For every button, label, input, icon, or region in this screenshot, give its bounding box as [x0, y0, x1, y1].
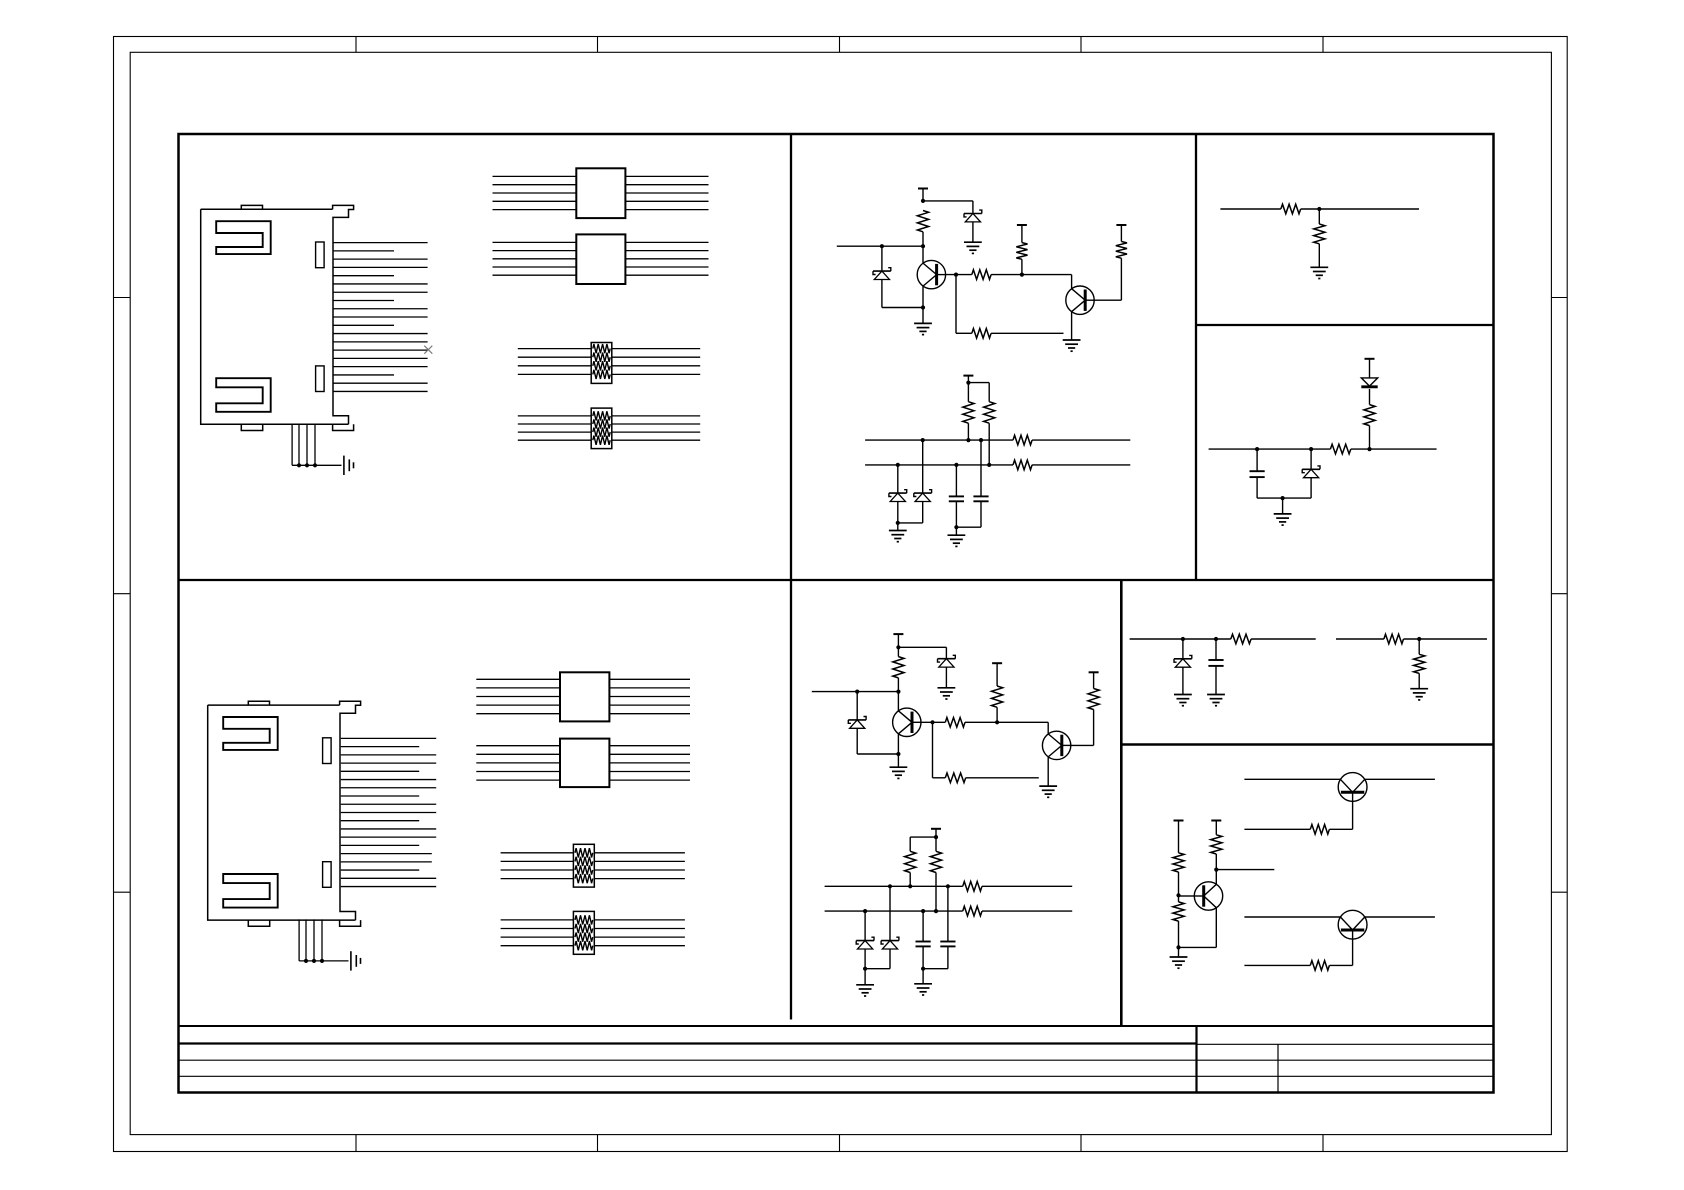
wire input net A	[837, 245, 923, 247]
resistor R8	[1013, 435, 1032, 445]
wire lower bus A left	[865, 464, 1013, 466]
ground under R25	[1410, 688, 1428, 690]
wire node F2 to R19	[910, 836, 936, 838]
wire VCC4 stem	[967, 376, 969, 383]
node J2 junction	[1417, 637, 1421, 641]
title block vertical divider	[1195, 1026, 1197, 1093]
magnetics module T4 pins	[476, 745, 560, 747]
resistor network RN3 body	[573, 844, 594, 887]
resistor R28	[1173, 853, 1184, 872]
resistor R20	[930, 851, 941, 872]
power pin VCC1	[918, 188, 928, 190]
wire input net B	[812, 691, 899, 693]
connector J1 shield contact upper	[216, 221, 271, 254]
node E1 junction	[1020, 273, 1024, 277]
wire to C1cap	[955, 465, 957, 497]
zener diode D10	[881, 940, 899, 942]
wire Q4 emitter	[1047, 757, 1049, 786]
node G2 junction	[863, 967, 867, 971]
node N1 junction	[1214, 868, 1218, 872]
wire Q5 rail left	[1244, 778, 1340, 780]
wire R1 to node B1	[922, 232, 924, 246]
wire Q1 collector	[922, 246, 924, 263]
junction dots on J2 shield bus	[304, 959, 308, 963]
wire R20 to lower bus	[935, 873, 937, 912]
power pin VCC3	[1116, 224, 1126, 226]
wire VCC10 to R28	[1178, 821, 1180, 853]
resistor R14	[893, 657, 904, 678]
wire to D10	[889, 886, 891, 940]
resistor R4	[1116, 242, 1127, 259]
zener diode D1	[873, 270, 891, 272]
wire C1 to ground	[922, 308, 924, 324]
wire lower bus B right	[982, 910, 1072, 912]
resistor R25	[1414, 654, 1425, 673]
wire D6 to node K1	[1310, 478, 1312, 498]
sheet inner border frame	[130, 52, 1551, 1134]
wire to R25	[1418, 639, 1420, 654]
wire node B2 to D1	[881, 246, 883, 271]
resistor R1	[917, 211, 928, 232]
wire VCC2 to R3	[1021, 225, 1023, 243]
zener diode D2	[964, 213, 982, 215]
wire R30 to node P1	[1178, 921, 1180, 947]
node M1 junction	[1176, 893, 1180, 897]
wire VCC1 stem	[922, 189, 924, 201]
wire C3 to node K1	[1256, 477, 1258, 498]
title block top line	[179, 1025, 1494, 1027]
ground under Q1	[914, 322, 932, 324]
wire clamp bus right	[1351, 448, 1437, 450]
diode D5	[1361, 378, 1377, 386]
zener diode D6	[1302, 468, 1320, 470]
power pin VCC10	[1174, 820, 1184, 822]
resistor R6	[963, 402, 974, 424]
magnetics module T2 pins	[493, 241, 577, 243]
node D2n junction	[930, 720, 934, 724]
wire upper bus B right	[982, 885, 1072, 887]
connector J1 latch upper	[316, 242, 325, 268]
wire node N1 stub	[1216, 869, 1274, 871]
node C2 junction	[896, 752, 900, 756]
ground under D3 D4	[889, 530, 907, 532]
connector J2 body	[208, 701, 361, 926]
wire lower bus B left	[825, 910, 963, 912]
resistor network RN4 body	[573, 911, 594, 954]
wire Q7 collector	[1215, 870, 1217, 885]
wire node P1 to ground	[1178, 947, 1180, 957]
wire D2 to ground	[972, 222, 974, 242]
wire Q5 base down	[1352, 801, 1354, 829]
wire VCC9 stem	[935, 829, 937, 837]
wire to D3	[897, 465, 899, 493]
wire node G2 to ground	[864, 969, 866, 985]
ground under clamp	[1274, 513, 1292, 515]
divider between middle and right columns (top half)	[1195, 134, 1197, 580]
wire to C5	[947, 886, 949, 941]
connector J2 latch upper	[323, 738, 332, 764]
resistor R19	[905, 851, 916, 872]
main schematic frame	[179, 134, 1494, 1093]
capacitor C6	[1208, 659, 1223, 661]
wire R5 stub	[991, 332, 1063, 334]
earth ground for J2 shield	[350, 951, 352, 970]
node E2 junction	[995, 720, 999, 724]
junction dots lower bus A	[896, 463, 900, 467]
zener diode D7	[938, 658, 956, 660]
junction dots upper bus A	[921, 438, 925, 442]
wire to D11	[1182, 639, 1184, 659]
resistor R9	[1013, 460, 1032, 470]
earth ground for J1 shield	[343, 456, 345, 475]
wire R14 to node B3	[897, 678, 899, 692]
capacitor C3	[1250, 470, 1265, 472]
wire Q1 emitter	[922, 286, 924, 307]
wire prot net B	[1336, 638, 1384, 640]
wire C2 to ground	[897, 754, 899, 767]
transistor Q7	[1194, 882, 1222, 910]
wire D8 to node C2	[856, 728, 858, 754]
wire to D6	[1310, 449, 1312, 469]
node F2 junction	[934, 835, 938, 839]
node C1 junction	[921, 305, 925, 309]
wire R27 left	[1244, 964, 1310, 966]
resistor R16	[992, 686, 1003, 707]
wire term net A right	[1301, 208, 1419, 210]
wire to D9	[864, 911, 866, 941]
resistor R10	[1281, 204, 1301, 214]
magnetics module T3 pins	[476, 678, 560, 680]
wire D7 to ground	[945, 667, 947, 688]
wire D11 to ground	[1182, 667, 1184, 694]
node B1 junction	[921, 244, 925, 248]
wire Q6 base down	[1352, 939, 1354, 965]
resistor network RN2 body	[591, 408, 612, 449]
wire VCC7 to R16	[996, 663, 998, 686]
title block inner vertical divider	[1277, 1044, 1279, 1092]
wire prot net A	[1130, 638, 1231, 640]
wire D4 to node G1	[922, 502, 924, 523]
node J1 junction	[1317, 207, 1321, 211]
zener diode D8	[848, 719, 866, 721]
wire Q5 rail right	[1365, 778, 1435, 780]
resistor network RN4 pins	[501, 919, 574, 921]
wire upper bus A right	[1032, 439, 1130, 441]
transistor Q1	[917, 260, 945, 288]
wire D10 to node G2	[889, 949, 891, 969]
wire VCC11 to R29	[1215, 821, 1217, 835]
ground under Q7	[1170, 956, 1188, 958]
resistor R2	[972, 270, 991, 280]
wire to C2cap	[980, 440, 982, 496]
connector J1 pins	[333, 242, 428, 244]
no-connect mark on J1 pin 14	[424, 346, 432, 354]
wire R3 to node E1	[1021, 259, 1023, 274]
wire R6 to bus	[967, 423, 969, 440]
power pin VCC9	[931, 828, 941, 830]
connector J1 body	[201, 205, 354, 430]
wire node K1 to ground	[1282, 498, 1284, 514]
junction dots prot net A	[1181, 637, 1185, 641]
horizontal divider at mid sheet	[179, 579, 1494, 581]
wire Q4 base	[1071, 744, 1094, 746]
power pin VCC7	[992, 662, 1002, 664]
wire R14 top	[897, 647, 899, 656]
ground under R11	[1310, 266, 1328, 268]
node F1 junction	[966, 381, 970, 385]
wire R4 to VCC3	[1120, 225, 1122, 242]
resistor R23	[1231, 634, 1251, 644]
ground under Q3	[890, 766, 908, 768]
connector J1 shield legs	[291, 424, 293, 465]
wire to R11	[1318, 209, 1320, 224]
wire D5 to R12	[1369, 389, 1371, 405]
wire node D2n down	[932, 722, 934, 778]
node A1 junction	[921, 199, 925, 203]
wire node B4 to D8	[856, 692, 858, 720]
node A2 junction	[896, 645, 900, 649]
connector J2 shield contact upper	[223, 717, 278, 750]
resistor R3	[1016, 243, 1027, 260]
magnetics module T2 body	[576, 234, 625, 284]
transistor Q6	[1338, 910, 1367, 939]
resistor network RN1 body	[591, 343, 612, 384]
resistor R7	[984, 402, 995, 424]
ground under Q2	[1063, 339, 1081, 341]
power pin VCC4	[963, 375, 973, 377]
resistor network RN1 pins	[518, 348, 591, 350]
wire Q2 base	[1094, 299, 1121, 301]
wire to C6	[1215, 639, 1217, 660]
wire C2 to node H1	[980, 501, 982, 527]
wire lower bus A right	[1032, 464, 1130, 466]
junction dots lower bus B	[863, 909, 867, 913]
node H2 junction	[921, 967, 925, 971]
wire Q3 base to R15	[921, 721, 945, 723]
node B4 junction	[855, 690, 859, 694]
ground under D11	[1174, 694, 1192, 696]
wire R11 to ground	[1318, 244, 1320, 267]
wire prot net A right	[1251, 638, 1316, 640]
wire R28 to node M1	[1178, 872, 1180, 895]
node G1 junction	[896, 521, 900, 525]
wire Q1 base to R2	[946, 274, 972, 276]
wire R17 to VCC8	[1093, 672, 1095, 688]
node H1 junction	[954, 525, 958, 529]
wire Q7 base	[1179, 895, 1195, 897]
wire node H1 to ground	[955, 527, 957, 535]
wire R15 to Q4 collector	[965, 721, 1048, 723]
resistor R26	[1310, 825, 1329, 835]
ground under D2	[964, 241, 982, 243]
wire node F1 to R6	[967, 383, 969, 402]
resistor network RN3 pins	[501, 852, 574, 854]
resistor R29	[1211, 835, 1222, 854]
node B3 junction	[896, 690, 900, 694]
resistor R24	[1384, 634, 1404, 644]
transistor Q2	[1066, 286, 1094, 314]
transistor Q3	[893, 708, 921, 736]
ground under D7	[938, 687, 956, 689]
wire C1 to node H1	[955, 501, 957, 527]
divider between middle and right columns (bottom half)	[1120, 580, 1123, 1026]
wire upper bus B left	[825, 885, 963, 887]
connector J2 shield legs	[298, 919, 300, 961]
wire Q6 rail right	[1365, 916, 1435, 918]
capacitor C5	[940, 941, 955, 943]
wire R12 to bus	[1369, 426, 1371, 450]
wire clamp bus	[1209, 448, 1331, 450]
magnetics module T1 body	[576, 168, 625, 218]
wire C6 to ground	[1215, 666, 1217, 695]
divider between left and middle columns	[790, 134, 792, 1020]
resistor R17	[1088, 689, 1099, 710]
wire node D1 down	[955, 275, 957, 334]
wire node F2 to R20	[935, 837, 937, 851]
wire D1 to node C1	[881, 280, 883, 308]
node D1 junction	[954, 273, 958, 277]
resistor R15	[945, 718, 965, 728]
power pin VCC2	[1017, 224, 1027, 226]
wire D3 to node G1	[897, 502, 899, 523]
power pin VCC6	[893, 633, 903, 635]
wire Q3 collector	[897, 692, 899, 711]
title block row line 1 left (thick)	[179, 1042, 1197, 1044]
resistor R18	[945, 773, 965, 783]
ground under Q4	[1039, 785, 1057, 787]
connector J2 shield contact lower	[223, 874, 278, 908]
wire node M1 to R30	[1178, 895, 1180, 902]
ground under C4 C5	[914, 983, 932, 985]
ground under C6	[1207, 694, 1225, 696]
wire R25 to ground	[1418, 673, 1420, 688]
power pin VCC5	[1365, 358, 1375, 360]
wire Q6 rail left	[1244, 916, 1340, 918]
divider between bottom-right boxes	[1121, 743, 1493, 746]
wire Q7 emitter	[1215, 908, 1217, 948]
node B2 junction	[880, 244, 884, 248]
wire to C3	[1256, 449, 1258, 471]
zener diode D4	[914, 492, 932, 494]
wire node G1 to ground	[897, 523, 899, 531]
junction dots upper bus B	[888, 884, 892, 888]
wire VCC5 to D5	[1369, 359, 1371, 378]
transistor Q5	[1338, 773, 1367, 802]
wire R7 to lower bus	[988, 423, 990, 465]
wire to C4	[922, 911, 924, 941]
wire R18 stub	[966, 777, 1039, 779]
title block row line 3	[179, 1075, 1494, 1077]
wire D9 to node G2	[864, 949, 866, 969]
zener diode D9	[856, 940, 874, 942]
junction dots clamp bus	[1255, 447, 1259, 451]
capacitor C2	[973, 495, 988, 497]
resistor network RN2 pins	[518, 415, 591, 417]
wire R29 to node N1	[1215, 854, 1217, 870]
border zone tick marks	[355, 37, 357, 53]
wire VCC6 stem	[897, 634, 899, 647]
wire to D4	[922, 440, 924, 493]
zener diode D3	[889, 492, 907, 494]
connector J2 pins	[341, 737, 436, 739]
node P1 junction	[1176, 945, 1180, 949]
resistor R13	[1330, 444, 1350, 454]
wire C5 to node H2	[947, 946, 949, 968]
resistor R21	[963, 882, 982, 892]
connector J1 latch lower	[316, 366, 325, 392]
resistor R22	[963, 906, 982, 916]
divider under top-right box	[1196, 324, 1494, 326]
wire Q2 emitter	[1071, 312, 1073, 340]
resistor R12	[1364, 405, 1375, 426]
ground under C1 C2	[948, 534, 966, 536]
connector J1 shield contact lower	[216, 378, 271, 412]
magnetics module T3 body	[560, 672, 609, 721]
junction dots on J1 shield bus	[297, 463, 301, 467]
node K1 junction	[1281, 496, 1285, 500]
ground under D9 D10	[856, 984, 874, 986]
wire node A2 to D7	[898, 646, 946, 648]
transistor Q4	[1042, 731, 1070, 759]
wire upper bus A left	[865, 439, 1013, 441]
connector J2 latch lower	[323, 862, 332, 888]
magnetics module T1 pins	[493, 175, 577, 177]
wire node H2 to ground	[922, 969, 924, 984]
resistor R11	[1314, 224, 1325, 244]
wire R26 left	[1244, 828, 1310, 830]
wire R16 to node E2	[996, 707, 998, 722]
magnetics module T4 body	[560, 739, 609, 788]
wire prot net B right	[1404, 638, 1488, 640]
power pin VCC8	[1089, 671, 1099, 673]
wire Q3 emitter	[897, 734, 899, 754]
power pin VCC11	[1211, 820, 1221, 822]
wire term net A	[1220, 208, 1280, 210]
resistor R27	[1310, 961, 1329, 971]
wire R19 to bus	[909, 873, 911, 887]
wire node A1 to D2	[923, 200, 973, 202]
wire node F1 to R7	[968, 382, 989, 384]
title block row line 1 right	[1197, 1043, 1494, 1045]
zener diode D11	[1174, 658, 1192, 660]
wire R2 to Q2 collector	[991, 274, 1072, 276]
wire C4 to node H2	[922, 946, 924, 968]
capacitor C4	[916, 941, 931, 943]
resistor R5	[972, 329, 991, 339]
title block row line 2	[179, 1059, 1494, 1061]
resistor R30	[1173, 902, 1184, 921]
capacitor C1	[949, 495, 964, 497]
